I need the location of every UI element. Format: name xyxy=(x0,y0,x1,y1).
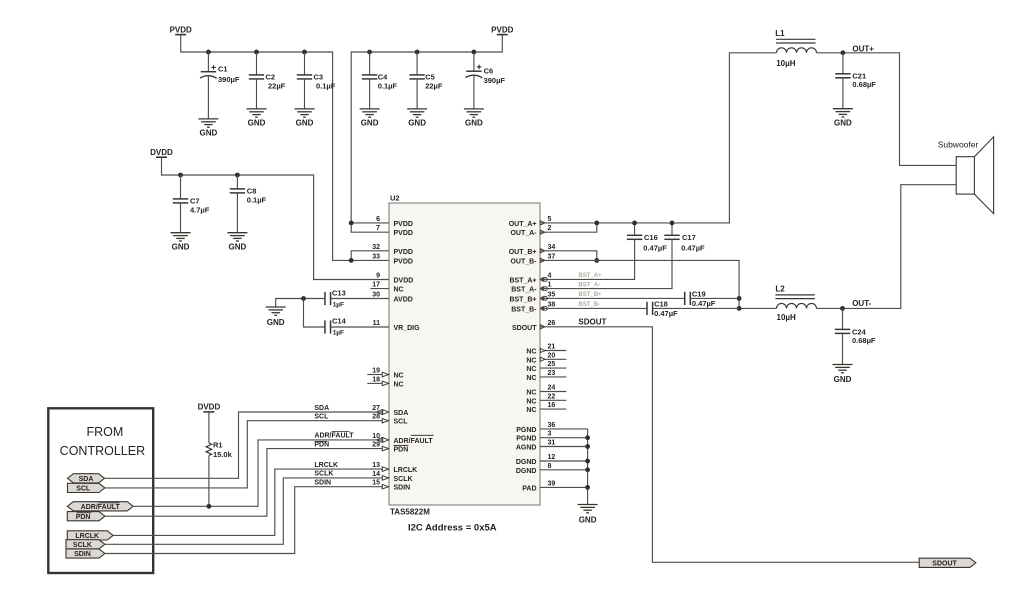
svg-text:SDIN: SDIN xyxy=(314,480,331,487)
svg-text:1µF: 1µF xyxy=(333,301,344,308)
svg-text:0.47µF: 0.47µF xyxy=(692,299,716,308)
svg-text:31: 31 xyxy=(548,440,556,447)
svg-text:GND: GND xyxy=(248,119,266,128)
svg-text:NC: NC xyxy=(394,381,404,388)
svg-text:BST_B+: BST_B+ xyxy=(509,296,536,303)
svg-text:PVDD: PVDD xyxy=(394,258,413,265)
svg-text:17: 17 xyxy=(372,282,380,289)
svg-text:BST_B-: BST_B- xyxy=(511,306,537,313)
svg-text:C21: C21 xyxy=(852,71,866,80)
svg-text:ADR/FAULT: ADR/FAULT xyxy=(394,438,434,445)
svg-text:10µH: 10µH xyxy=(777,313,797,322)
svg-text:GND: GND xyxy=(361,119,379,128)
svg-text:OUT_B-: OUT_B- xyxy=(510,258,537,265)
svg-text:NC: NC xyxy=(526,398,536,405)
svg-text:LRCLK: LRCLK xyxy=(314,462,338,469)
svg-text:AGND: AGND xyxy=(516,445,537,452)
svg-text:I2C Address = 0x5A: I2C Address = 0x5A xyxy=(408,523,497,534)
svg-text:24: 24 xyxy=(548,385,556,392)
svg-text:NC: NC xyxy=(394,287,404,294)
svg-text:18: 18 xyxy=(372,376,380,383)
svg-text:12: 12 xyxy=(548,454,556,461)
svg-text:PDN: PDN xyxy=(314,441,329,448)
svg-text:15.0k: 15.0k xyxy=(213,450,233,459)
svg-text:8: 8 xyxy=(548,463,552,470)
svg-text:DGND: DGND xyxy=(516,459,537,466)
svg-text:NC: NC xyxy=(394,373,404,380)
svg-text:2: 2 xyxy=(548,225,552,232)
svg-text:BST_A-: BST_A- xyxy=(511,287,537,294)
svg-text:38: 38 xyxy=(548,301,556,308)
svg-text:34: 34 xyxy=(548,244,556,251)
svg-text:4: 4 xyxy=(548,272,552,279)
svg-text:BST_B+: BST_B+ xyxy=(578,292,602,298)
svg-text:GND: GND xyxy=(408,119,426,128)
svg-text:22: 22 xyxy=(548,393,556,400)
svg-text:PVDD: PVDD xyxy=(394,249,413,256)
svg-text:PVDD: PVDD xyxy=(394,221,413,228)
svg-text:9: 9 xyxy=(376,273,380,280)
svg-text:25: 25 xyxy=(548,361,556,368)
svg-text:3: 3 xyxy=(548,431,552,438)
svg-text:C6: C6 xyxy=(484,67,494,76)
svg-text:4.7µF: 4.7µF xyxy=(190,206,210,215)
svg-text:C13: C13 xyxy=(332,288,346,297)
svg-text:PDN: PDN xyxy=(76,514,91,521)
svg-text:ADR/FAULT: ADR/FAULT xyxy=(81,504,121,511)
svg-text:BST_B-: BST_B- xyxy=(578,302,600,308)
svg-text:29: 29 xyxy=(372,442,380,449)
svg-text:GND: GND xyxy=(834,119,852,128)
svg-text:OUT_A-: OUT_A- xyxy=(510,230,537,237)
svg-text:C2: C2 xyxy=(266,72,276,81)
svg-text:DGND: DGND xyxy=(516,468,537,475)
svg-text:L2: L2 xyxy=(775,285,785,294)
svg-text:GND: GND xyxy=(296,119,314,128)
svg-text:GND: GND xyxy=(172,243,190,252)
svg-text:14: 14 xyxy=(372,471,380,478)
svg-text:35: 35 xyxy=(548,291,556,298)
svg-text:SDIN: SDIN xyxy=(394,485,411,492)
svg-text:SDA: SDA xyxy=(394,410,409,417)
svg-text:SCL: SCL xyxy=(394,419,409,426)
svg-text:SCL: SCL xyxy=(76,486,91,493)
svg-text:R1: R1 xyxy=(213,441,223,450)
svg-text:7: 7 xyxy=(376,225,380,232)
svg-text:SDA: SDA xyxy=(314,405,329,412)
svg-text:NC: NC xyxy=(526,349,536,356)
svg-text:SDOUT: SDOUT xyxy=(578,318,606,327)
svg-text:1: 1 xyxy=(548,282,552,289)
svg-text:L1: L1 xyxy=(775,29,785,38)
svg-text:BST_A+: BST_A+ xyxy=(578,273,602,279)
svg-text:NC: NC xyxy=(526,390,536,397)
svg-text:0.47µF: 0.47µF xyxy=(654,309,678,318)
svg-text:VR_DIG: VR_DIG xyxy=(394,325,421,332)
svg-text:U2: U2 xyxy=(390,194,400,203)
svg-text:PAD: PAD xyxy=(522,485,536,492)
svg-text:FROM: FROM xyxy=(86,425,123,439)
svg-text:PGND: PGND xyxy=(516,436,536,443)
svg-text:C14: C14 xyxy=(332,317,347,326)
svg-text:GND: GND xyxy=(229,243,247,252)
svg-text:23: 23 xyxy=(548,370,556,377)
svg-text:11: 11 xyxy=(373,320,381,327)
svg-text:SCLK: SCLK xyxy=(73,542,92,549)
svg-text:0.1µF: 0.1µF xyxy=(247,196,267,205)
svg-text:GND: GND xyxy=(465,119,483,128)
svg-text:NC: NC xyxy=(526,375,536,382)
svg-text:C17: C17 xyxy=(682,233,696,242)
svg-text:0.47µF: 0.47µF xyxy=(643,244,667,253)
svg-text:390µF: 390µF xyxy=(218,75,240,84)
svg-text:LRCLK: LRCLK xyxy=(75,533,99,540)
svg-text:22µF: 22µF xyxy=(268,82,286,91)
svg-text:10µH: 10µH xyxy=(776,59,796,68)
svg-text:PVDD: PVDD xyxy=(394,230,413,237)
svg-text:SCLK: SCLK xyxy=(314,471,333,478)
svg-text:20: 20 xyxy=(548,352,556,359)
svg-text:GND: GND xyxy=(579,516,597,525)
svg-text:6: 6 xyxy=(376,216,380,223)
svg-text:C19: C19 xyxy=(692,290,706,299)
svg-text:32: 32 xyxy=(372,244,380,251)
svg-text:SDA: SDA xyxy=(79,476,94,483)
svg-text:C1: C1 xyxy=(218,64,228,73)
svg-text:13: 13 xyxy=(372,462,380,469)
svg-text:37: 37 xyxy=(548,253,556,260)
svg-text:C8: C8 xyxy=(247,186,257,195)
svg-text:0.68µF: 0.68µF xyxy=(852,336,876,345)
svg-text:21: 21 xyxy=(548,344,556,351)
svg-text:GND: GND xyxy=(200,129,218,138)
svg-text:NC: NC xyxy=(526,407,536,414)
svg-text:PVDD: PVDD xyxy=(491,25,513,34)
svg-text:26: 26 xyxy=(548,320,556,327)
svg-text:SDIN: SDIN xyxy=(74,551,91,558)
svg-text:0.1µF: 0.1µF xyxy=(316,82,336,91)
svg-text:SCLK: SCLK xyxy=(394,476,413,483)
svg-text:CONTROLLER: CONTROLLER xyxy=(60,444,145,458)
svg-text:NC: NC xyxy=(526,366,536,373)
svg-text:NC: NC xyxy=(526,357,536,364)
svg-text:DVDD: DVDD xyxy=(394,278,414,285)
svg-text:C7: C7 xyxy=(190,196,200,205)
svg-text:C24: C24 xyxy=(852,328,867,337)
svg-text:SCL: SCL xyxy=(314,414,329,421)
svg-text:0.47µF: 0.47µF xyxy=(681,244,705,253)
svg-text:28: 28 xyxy=(372,414,380,421)
svg-text:C4: C4 xyxy=(378,72,388,81)
svg-text:GND: GND xyxy=(834,375,852,384)
svg-text:16: 16 xyxy=(548,402,556,409)
svg-text:C16: C16 xyxy=(644,233,658,242)
svg-text:BST_A+: BST_A+ xyxy=(509,277,536,284)
svg-text:DVDD: DVDD xyxy=(198,403,221,412)
svg-text:PGND: PGND xyxy=(516,427,536,434)
svg-text:30: 30 xyxy=(372,292,380,299)
svg-text:OUT_B+: OUT_B+ xyxy=(509,249,537,256)
svg-text:PVDD: PVDD xyxy=(170,25,192,34)
svg-text:SDOUT: SDOUT xyxy=(512,325,537,332)
svg-text:C5: C5 xyxy=(425,72,435,81)
svg-text:19: 19 xyxy=(372,368,380,375)
svg-text:ADR/FAULT: ADR/FAULT xyxy=(314,433,354,440)
svg-text:39: 39 xyxy=(548,480,556,487)
svg-text:36: 36 xyxy=(548,422,556,429)
svg-text:SDOUT: SDOUT xyxy=(932,560,957,567)
svg-text:5: 5 xyxy=(548,216,552,223)
svg-text:OUT+: OUT+ xyxy=(852,45,874,54)
svg-text:LRCLK: LRCLK xyxy=(394,467,418,474)
svg-text:C3: C3 xyxy=(314,72,324,81)
svg-text:OUT_A+: OUT_A+ xyxy=(509,221,537,228)
svg-text:AVDD: AVDD xyxy=(394,297,413,304)
svg-text:0.68µF: 0.68µF xyxy=(852,80,876,89)
svg-text:GND: GND xyxy=(267,318,285,327)
svg-text:1µF: 1µF xyxy=(333,330,344,337)
svg-text:OUT-: OUT- xyxy=(852,299,871,308)
svg-text:C18: C18 xyxy=(654,300,668,309)
svg-text:0.1µF: 0.1µF xyxy=(378,82,398,91)
svg-text:TAS5822M: TAS5822M xyxy=(390,508,430,517)
svg-text:DVDD: DVDD xyxy=(150,148,173,157)
svg-text:33: 33 xyxy=(372,253,380,260)
svg-text:Subwoofer: Subwoofer xyxy=(938,139,979,149)
svg-text:390µF: 390µF xyxy=(484,76,506,85)
svg-text:15: 15 xyxy=(372,480,380,487)
svg-text:PDN: PDN xyxy=(394,447,409,454)
svg-text:22µF: 22µF xyxy=(425,82,443,91)
svg-text:BST_A-: BST_A- xyxy=(578,282,600,288)
